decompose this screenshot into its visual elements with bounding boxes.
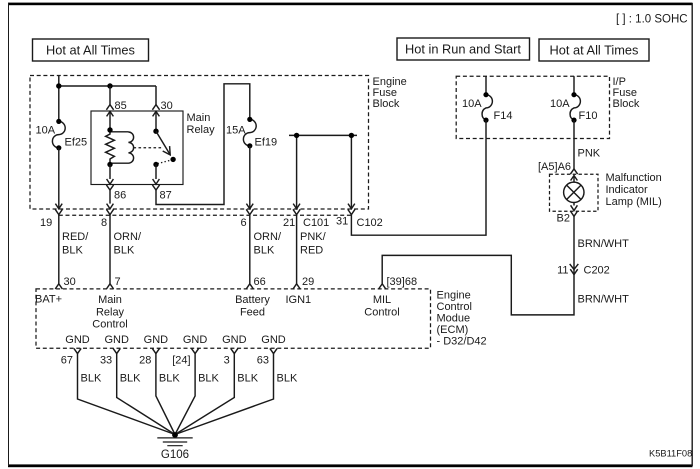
svg-text:30: 30 (64, 276, 76, 288)
svg-text:Malfunction: Malfunction (606, 172, 662, 184)
node: IGN bus dot C101 side (294, 133, 299, 138)
node: coil bottom dot (107, 162, 112, 167)
Engine Control Module label (437, 290, 487, 348)
lamp MIL bulb (573, 176, 575, 183)
svg-text:(ECM): (ECM) (437, 324, 469, 336)
svg-text:30: 30 (161, 100, 173, 112)
fuse Ef25 (52, 121, 65, 147)
svg-text:K5B11F08: K5B11F08 (649, 449, 692, 459)
connector dashed line below fuse block (59, 214, 352, 216)
pin 31 exit arrow (348, 204, 355, 215)
pin 8 exit arrow (106, 204, 113, 215)
BLK wire labels (81, 373, 298, 385)
svg-text:BRN/WHT: BRN/WHT (578, 294, 630, 306)
svg-text:GND: GND (144, 334, 169, 346)
svg-text:B2: B2 (557, 213, 570, 225)
Main Relay label (187, 112, 216, 136)
svg-text:[39]68: [39]68 (387, 276, 418, 288)
svg-text:33: 33 (100, 355, 112, 367)
svg-text:BLK: BLK (254, 245, 275, 257)
svg-text:Hot in Run and Start: Hot in Run and Start (405, 42, 521, 57)
wire: IGN bus inside fuse block (289, 135, 357, 208)
wire F14 lower (handled above to C102) (485, 120, 487, 139)
svg-text:21: 21 (283, 217, 295, 229)
relay switch wire from pin 30 (155, 111, 157, 131)
svg-text:29: 29 (302, 276, 314, 288)
svg-text:ORN/: ORN/ (114, 231, 142, 243)
svg-text:GND: GND (65, 334, 90, 346)
wire F10 feed (573, 76, 575, 95)
svg-text:10A: 10A (36, 125, 56, 137)
ground wire 63 (175, 354, 274, 435)
svg-text:GND: GND (183, 334, 208, 346)
header box Hot at All Times (right) (539, 39, 649, 61)
node: junction dot at relay 85 branch (107, 83, 112, 88)
svg-text:Block: Block (373, 98, 400, 110)
relay coil wire from pin 85 (109, 111, 111, 130)
svg-text:66: 66 (254, 276, 266, 288)
fuse F14 (482, 95, 492, 120)
svg-text:Modue: Modue (437, 313, 471, 325)
svg-text:Ef19: Ef19 (255, 137, 278, 149)
svg-text:Indicator: Indicator (606, 184, 649, 196)
svg-text:Hot at All Times: Hot at All Times (46, 43, 135, 58)
switch contact dotted link (158, 160, 172, 164)
I/P Fuse Block dashed box (456, 76, 609, 138)
svg-text:Control: Control (437, 301, 472, 313)
node: IGN bus dot C102 side (349, 133, 354, 138)
wire: relay pin 86 down to fuse block pin 8 (109, 190, 111, 204)
svg-text:Control: Control (92, 319, 127, 331)
svg-text:ORN/: ORN/ (254, 231, 282, 243)
svg-text:85: 85 (115, 100, 127, 112)
svg-text:Feed: Feed (240, 306, 265, 318)
wire BRN/WHT B2 to C202 (573, 216, 575, 274)
svg-text:MIL: MIL (373, 294, 391, 306)
svg-text:C202: C202 (584, 265, 610, 277)
wire ORN/BLK pin8 to pin7 (109, 215, 111, 284)
GND pin 63 chevron (270, 348, 277, 353)
svg-text:Main: Main (98, 294, 122, 306)
svg-text:[24]: [24] (172, 355, 190, 367)
node: switch pivot dot (153, 129, 158, 134)
svg-text:BAT+: BAT+ (35, 294, 62, 306)
wire F14 feed (485, 76, 487, 95)
Engine Fuse Block label (373, 76, 407, 110)
I/P Fuse Block label (613, 76, 640, 110)
GND labels (65, 334, 286, 346)
svg-text:- D32/D42: - D32/D42 (437, 336, 487, 348)
svg-text:86: 86 (114, 190, 126, 202)
svg-text:19: 19 (40, 217, 52, 229)
svg-text:Engine: Engine (437, 290, 471, 302)
relay switch arm (156, 131, 170, 154)
relay coil inductor (110, 132, 134, 163)
svg-text:BLK: BLK (159, 373, 180, 385)
svg-text:G106: G106 (161, 449, 189, 461)
svg-text:Control: Control (364, 306, 399, 318)
svg-text:Block: Block (613, 98, 640, 110)
svg-text:GND: GND (222, 334, 247, 346)
relay coil resistor zigzag (106, 130, 115, 165)
svg-text:F14: F14 (494, 110, 513, 122)
pin 87 exit arrow (152, 179, 159, 190)
svg-text:3: 3 (224, 355, 230, 367)
pin 6 exit arrow (246, 204, 253, 215)
svg-text:BRN/WHT: BRN/WHT (578, 238, 630, 250)
svg-text:IGN1: IGN1 (286, 294, 312, 306)
wire: Ef19 down to pin 6 (249, 146, 251, 209)
ECM pin 7 chevron (106, 284, 113, 289)
wire RED/BLK pin19 to BAT+ (58, 215, 60, 284)
svg-text:[ ] : 1.0 SOHC: [ ] : 1.0 SOHC (616, 14, 688, 26)
connector C202 arrow and chevron (570, 264, 579, 275)
main relay box (91, 111, 183, 185)
header box Hot at All Times (left) (33, 39, 149, 61)
GND pin 28 chevron (152, 348, 159, 353)
ground wire 33 (117, 354, 175, 435)
wire BRN/WHT C202 to ECM MIL control (382, 255, 574, 315)
relay mechanical link dashed (134, 147, 164, 149)
svg-text:BLK: BLK (198, 373, 219, 385)
svg-text:Relay: Relay (187, 124, 216, 136)
ECM pin name labels (35, 294, 400, 331)
svg-text:11: 11 (557, 265, 568, 277)
MIL exit arrow B2 (570, 205, 577, 216)
svg-text:BLK: BLK (114, 245, 135, 257)
wire: bus from fuse Ef25 to relay branch (59, 76, 156, 122)
svg-text:PNK: PNK (578, 148, 601, 160)
svg-text:7: 7 (115, 276, 121, 288)
svg-text:Hot at All Times: Hot at All Times (550, 43, 639, 58)
svg-text:C101: C101 (303, 217, 329, 229)
svg-text:63: 63 (257, 355, 269, 367)
wire: switch to pin 87 (155, 165, 157, 180)
svg-text:RED: RED (300, 245, 323, 257)
ECM pin 66 chevron (246, 284, 253, 289)
MIL dashed box (550, 174, 599, 211)
svg-text:Main: Main (187, 112, 211, 124)
ECM dashed box (36, 289, 431, 348)
svg-text:67: 67 (61, 355, 73, 367)
wire: coil to pin 86 (109, 165, 111, 180)
Malfunction Indicator Lamp label (606, 172, 662, 208)
svg-text:BLK: BLK (81, 373, 102, 385)
pin 86 exit arrow (106, 179, 113, 190)
ground wire 3 (175, 354, 234, 435)
svg-text:BLK: BLK (62, 245, 83, 257)
svg-text:10A: 10A (550, 98, 570, 110)
svg-text:Relay: Relay (96, 306, 125, 318)
svg-text:RED/: RED/ (62, 231, 89, 243)
svg-text:31: 31 (336, 216, 348, 228)
ECM pin 29 chevron (293, 284, 300, 289)
wire PNK F10 to MIL lamp (573, 120, 575, 169)
svg-text:Ef25: Ef25 (65, 137, 88, 149)
svg-text:Battery: Battery (235, 294, 270, 306)
GND pin 33 chevron (113, 348, 120, 353)
svg-text:28: 28 (139, 355, 151, 367)
svg-text:BLK: BLK (277, 373, 298, 385)
node: junction dot at Ef25 top bus (56, 83, 61, 88)
header box Hot in Run and Start (397, 38, 530, 60)
svg-text:87: 87 (160, 190, 172, 202)
svg-text:8: 8 (101, 217, 107, 229)
svg-text:GND: GND (261, 334, 286, 346)
ground wire 24 (175, 354, 195, 435)
GND pin 67 chevron (74, 348, 81, 353)
ECM pin 39/68 chevron (379, 284, 386, 289)
wire: pin 87 to Ef19 staple (156, 84, 250, 205)
pin 30 entry arrow (152, 105, 159, 117)
GND pin numbers (61, 355, 269, 367)
pin 21 exit arrow (293, 204, 300, 215)
svg-text:BLK: BLK (237, 373, 258, 385)
svg-text:PNK/: PNK/ (300, 231, 327, 243)
svg-text:GND: GND (104, 334, 129, 346)
node: switch lower dot (153, 162, 158, 167)
node: coil top dot (107, 127, 112, 132)
svg-text:10A: 10A (462, 98, 482, 110)
svg-text:BLK: BLK (120, 373, 141, 385)
wire PNK/RED pin21 to pin29 (296, 215, 298, 284)
ground wire 28 (156, 354, 175, 435)
svg-text:Lamp (MIL): Lamp (MIL) (606, 196, 662, 208)
Engine Fuse Block dashed box (30, 76, 369, 210)
ECM pin 30 chevron (55, 284, 62, 289)
fuse Ef19 (243, 119, 256, 145)
svg-text:6: 6 (241, 217, 247, 229)
svg-text:C102: C102 (357, 217, 383, 229)
node: switch contact dot (170, 157, 175, 162)
fuse F10 (570, 95, 580, 120)
pin 19 exit arrow (55, 204, 62, 215)
svg-text:[A5]A6: [A5]A6 (538, 161, 571, 173)
ground G106 (172, 432, 178, 438)
svg-text:F10: F10 (579, 110, 598, 122)
MIL entry arrow A6 (570, 169, 577, 181)
pin 85 entry arrow (106, 105, 113, 117)
wire ORN/BLK pin6 to pin66 (249, 215, 251, 284)
ground wire 67 (78, 354, 176, 435)
wire: branch down to relay pin 85 (109, 86, 111, 105)
svg-text:15A: 15A (226, 125, 246, 137)
GND pin 3 chevron (231, 348, 238, 353)
wire pin31 C102 to F14 (351, 139, 486, 236)
GND pin 24 chevron (192, 348, 199, 353)
wire: Ef25 down to pin 19 (58, 148, 60, 209)
